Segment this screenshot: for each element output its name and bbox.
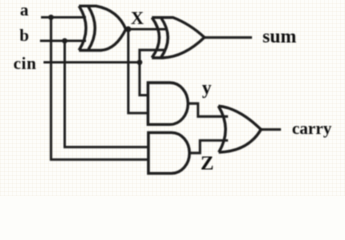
wire b down to and U4 upper input — [65, 41, 149, 147]
and gate U3 — [148, 83, 188, 125]
wire and U3 output to or U5 top input — [188, 104, 228, 117]
svg-text:carry: carry — [292, 119, 332, 138]
svg-text:cin: cin — [13, 54, 36, 73]
wire X to xor U2 top input — [126, 28, 166, 30]
node X junction dot — [125, 26, 131, 32]
or gate U5 body — [218, 106, 261, 152]
wire X down to and U3 lower input — [128, 29, 148, 113]
and gate U4 — [148, 133, 189, 174]
svg-text:y: y — [202, 78, 212, 99]
xor gate U1 input arc — [79, 6, 86, 50]
wire b — [40, 40, 86, 42]
wire a — [41, 16, 86, 18]
junction dot cin — [137, 60, 142, 65]
svg-text:b: b — [20, 26, 29, 45]
wire cin down to and U3 upper input — [140, 62, 148, 95]
wire cin — [44, 61, 140, 63]
svg-text:Z: Z — [201, 152, 214, 174]
xor gate U2 input arc — [152, 18, 159, 58]
wire carry output — [261, 128, 281, 130]
wire sum output — [205, 36, 253, 38]
svg-text:a: a — [20, 0, 29, 19]
xor gate U1 body — [79, 6, 126, 50]
xor gate U2 body — [152, 18, 205, 58]
svg-text:sum: sum — [263, 27, 297, 48]
or gate U5 input arc — [218, 106, 225, 152]
wire and U4 output to or U5 bottom input — [190, 140, 228, 153]
wire cin junction up to xor U2 bottom input — [140, 50, 166, 62]
junction dot b — [62, 38, 67, 43]
wire a down to and U4 lower input — [51, 17, 148, 159]
svg-text:X: X — [131, 8, 144, 28]
junction dot a — [48, 15, 53, 20]
